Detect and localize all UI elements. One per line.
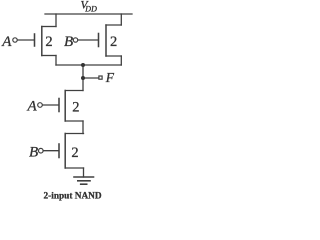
svg-text:2: 2 bbox=[71, 145, 78, 161]
svg-text:F: F bbox=[105, 70, 115, 85]
svg-text:A: A bbox=[27, 99, 38, 115]
svg-text:B: B bbox=[29, 145, 38, 161]
svg-text:2: 2 bbox=[110, 34, 117, 50]
svg-text:2-input NAND: 2-input NAND bbox=[44, 191, 102, 201]
svg-text:2: 2 bbox=[72, 100, 79, 116]
svg-text:DD: DD bbox=[84, 5, 97, 14]
svg-text:2: 2 bbox=[45, 34, 52, 50]
svg-text:B: B bbox=[64, 34, 73, 50]
svg-text:A: A bbox=[1, 34, 12, 50]
